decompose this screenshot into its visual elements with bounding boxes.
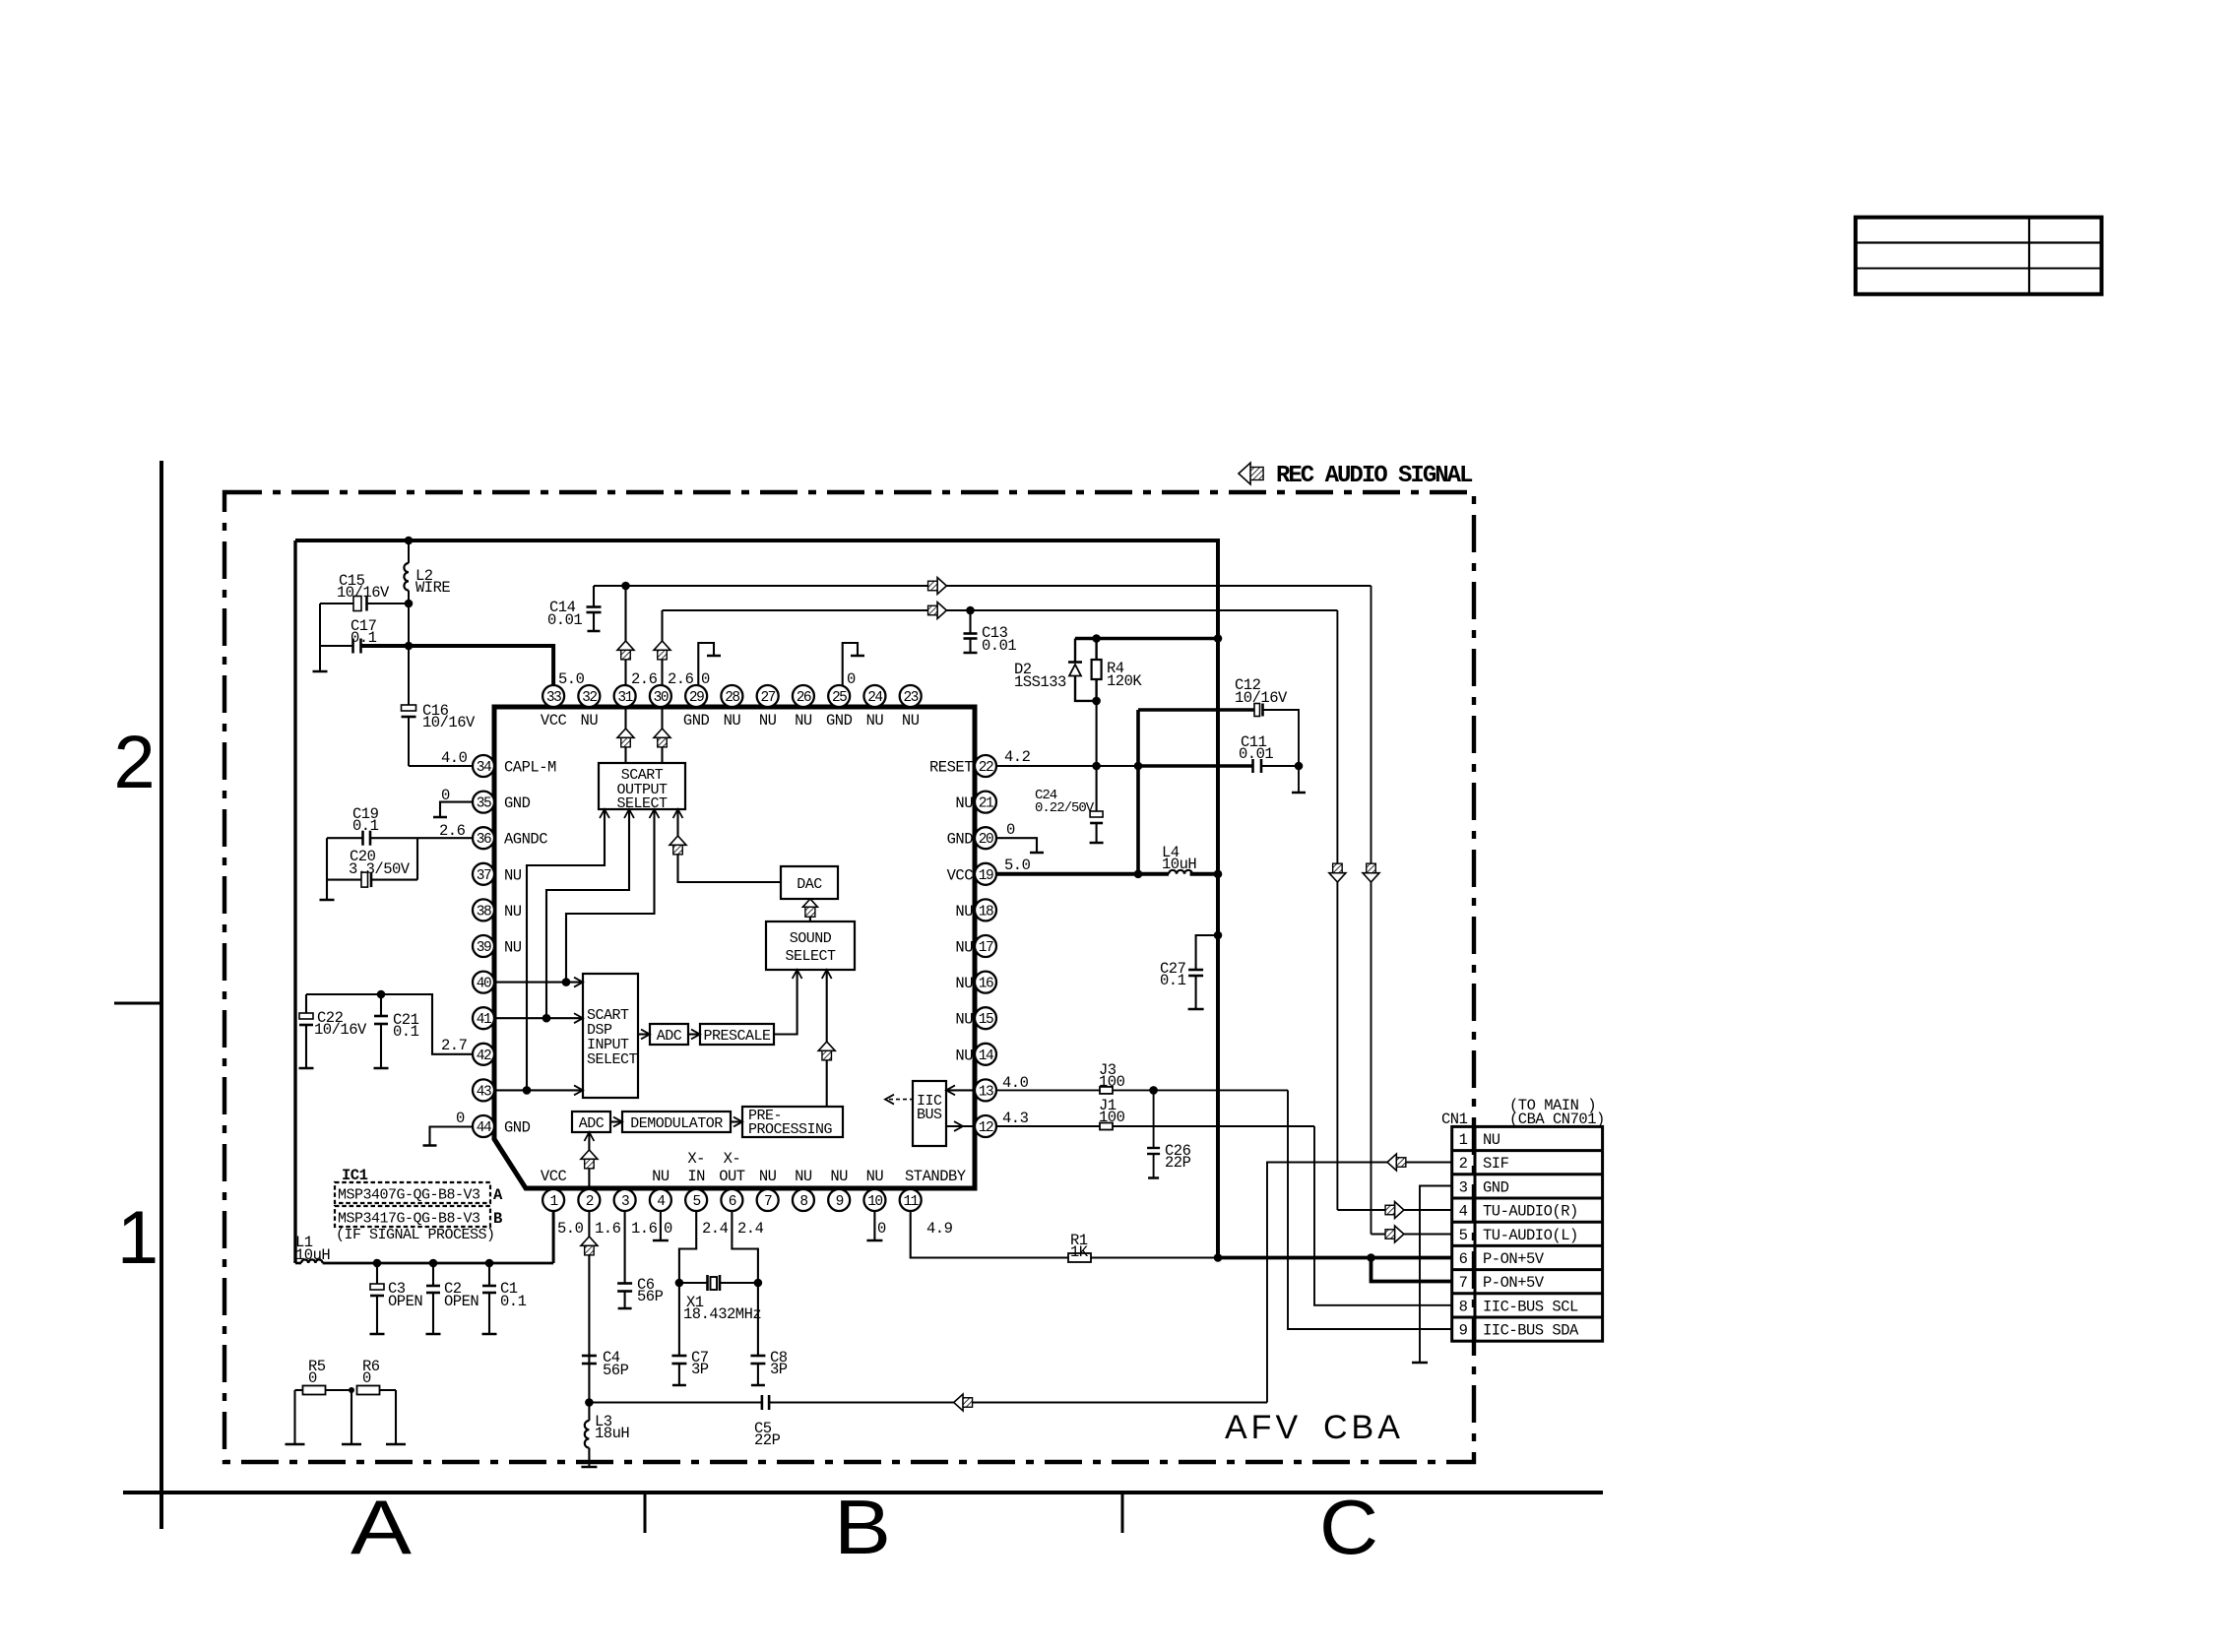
svg-text:2.6: 2.6 — [668, 670, 694, 688]
svg-text:10: 10 — [867, 1194, 882, 1210]
svg-text:22: 22 — [979, 760, 993, 776]
svg-text:36: 36 — [477, 832, 491, 848]
wire pin22 RESET — [996, 765, 1138, 767]
svg-text:SELECT: SELECT — [616, 795, 668, 812]
pin 38 — [473, 899, 494, 921]
pin 26 — [793, 685, 814, 707]
svg-text:WIRE: WIRE — [415, 579, 450, 597]
svg-text:27: 27 — [760, 690, 775, 706]
ground at pin10 — [873, 1211, 875, 1240]
svg-text:1.6: 1.6 — [595, 1220, 621, 1238]
svg-text:0: 0 — [1006, 821, 1015, 839]
svg-text:37: 37 — [477, 868, 491, 884]
wire DSP to ADC — [638, 1033, 650, 1035]
svg-text:GND: GND — [1483, 1178, 1509, 1196]
svg-text:VCC: VCC — [541, 712, 567, 730]
wire pin42 node — [306, 994, 473, 1054]
svg-text:NU: NU — [1483, 1131, 1500, 1149]
svg-text:2.6: 2.6 — [631, 670, 658, 688]
svg-text:4.9: 4.9 — [926, 1220, 953, 1238]
svg-text:0: 0 — [308, 1369, 317, 1387]
svg-text:32: 32 — [582, 690, 597, 706]
pin 39 — [473, 935, 494, 957]
pin 35 — [473, 792, 494, 813]
svg-text:0: 0 — [877, 1220, 886, 1238]
svg-text:1SS133: 1SS133 — [1014, 673, 1066, 691]
wire scart-out input C from pin40 net — [566, 809, 655, 983]
capacitor C15 10/16V — [367, 603, 410, 604]
pin 14 — [975, 1044, 996, 1065]
pin 1 — [542, 1189, 564, 1211]
capacitor C27 0.1 — [1196, 935, 1218, 970]
hidden-net arrow pin30 above — [654, 641, 670, 650]
wire reset filter to C11/C12 — [1138, 764, 1253, 768]
pin 4 — [650, 1189, 671, 1211]
svg-text:NU: NU — [955, 939, 973, 957]
svg-text:GND: GND — [504, 1119, 531, 1137]
revision table — [1856, 218, 2102, 294]
svg-text:NU: NU — [955, 794, 973, 812]
svg-text:3.3/50V: 3.3/50V — [349, 860, 411, 878]
ground at C11/C12 — [1298, 766, 1300, 793]
svg-text:SIF: SIF — [1483, 1155, 1509, 1173]
svg-text:16: 16 — [979, 977, 993, 992]
pin 19 — [975, 863, 996, 885]
pin 25 — [828, 685, 850, 707]
svg-text:X-: X- — [687, 1150, 705, 1168]
svg-text:2: 2 — [113, 721, 155, 804]
capacitor C20 3.3/50V — [416, 838, 418, 879]
crystal X1 18.432MHz — [679, 1282, 708, 1284]
svg-text:34: 34 — [477, 760, 491, 776]
svg-text:8: 8 — [1459, 1298, 1468, 1315]
voltage at pin20 — [996, 838, 1037, 853]
svg-text:OPEN: OPEN — [388, 1293, 422, 1310]
hidden-net arrow pin31 inside — [617, 729, 634, 737]
svg-text:2: 2 — [586, 1194, 594, 1210]
svg-text:25: 25 — [832, 690, 847, 706]
wire to pin34 CAPL-M — [409, 765, 473, 767]
pin 37 — [473, 863, 494, 885]
svg-text:GND: GND — [683, 712, 710, 730]
wire L4 to +5V vertical — [1190, 872, 1218, 876]
svg-text:4: 4 — [657, 1194, 665, 1210]
svg-text:0.01: 0.01 — [982, 637, 1016, 655]
svg-text:0: 0 — [847, 670, 856, 688]
AFV CBA board outline (dash-dot) — [224, 492, 1474, 1462]
svg-text:56P: 56P — [603, 1362, 629, 1379]
inductor L1 10uH — [301, 1259, 323, 1263]
svg-text:NU: NU — [955, 1011, 973, 1029]
block ADC upper — [650, 1024, 688, 1045]
wire scart-out input B from pin41 net — [546, 809, 629, 1018]
capacitor C16 10/16V — [408, 646, 410, 705]
svg-text:SOUND: SOUND — [790, 930, 832, 947]
svg-text:9: 9 — [836, 1194, 844, 1210]
pin 28 — [721, 685, 742, 707]
svg-text:20: 20 — [979, 832, 993, 848]
wire SOUND SELECT to DAC — [809, 899, 811, 921]
svg-text:13: 13 — [979, 1084, 993, 1100]
ground at pin35 — [440, 802, 473, 817]
svg-text:0.1: 0.1 — [352, 817, 379, 835]
svg-text:10/16V: 10/16V — [337, 584, 390, 602]
capacitor C4 56P — [582, 1355, 597, 1358]
pin 18 — [975, 899, 996, 921]
svg-text:26: 26 — [797, 690, 811, 706]
svg-text:GND: GND — [826, 712, 853, 730]
wire D2/R4 top rail — [1075, 637, 1218, 641]
pin 29 — [685, 685, 707, 707]
svg-text:IIC-BUS SDA: IIC-BUS SDA — [1483, 1322, 1579, 1340]
svg-text:ADC: ADC — [579, 1115, 605, 1132]
svg-text:NU: NU — [830, 1168, 848, 1185]
ground at pin25 — [843, 643, 858, 685]
svg-text:1: 1 — [117, 1196, 159, 1280]
svg-text:VCC: VCC — [947, 866, 974, 884]
pin 12 — [975, 1115, 996, 1137]
pin 31 — [614, 685, 636, 707]
svg-text:2: 2 — [1459, 1155, 1468, 1173]
svg-text:22P: 22P — [1165, 1154, 1191, 1172]
svg-text:29: 29 — [689, 690, 704, 706]
wire pin19 VCC to L4 — [996, 872, 1169, 876]
off-page flag REC AUDIO SIGNAL — [1239, 463, 1250, 484]
wire GND from CN1 pin3 — [1420, 1186, 1452, 1364]
pin 20 — [975, 827, 996, 849]
svg-text:3P: 3P — [770, 1361, 788, 1378]
svg-text:IIC-BUS SCL: IIC-BUS SCL — [1483, 1298, 1578, 1315]
svg-text:P-ON+5V: P-ON+5V — [1483, 1274, 1545, 1292]
block DEMODULATOR — [622, 1112, 731, 1132]
svg-text:0: 0 — [701, 670, 710, 688]
svg-text:14: 14 — [979, 1048, 993, 1064]
svg-text:0.22/50V: 0.22/50V — [1035, 800, 1095, 816]
svg-text:9: 9 — [1459, 1322, 1468, 1340]
svg-text:5.0: 5.0 — [1004, 857, 1031, 874]
ground at pin29 — [698, 643, 714, 685]
svg-text:NU: NU — [955, 975, 973, 992]
svg-text:120K: 120K — [1107, 672, 1142, 690]
svg-text:15: 15 — [979, 1012, 993, 1028]
svg-text:2.7: 2.7 — [441, 1037, 468, 1054]
wire ADC lower to DEMODULATOR — [610, 1120, 622, 1122]
pin 7 — [757, 1189, 779, 1211]
pin 5 — [685, 1189, 707, 1211]
block DAC — [781, 866, 838, 899]
svg-text:7: 7 — [1459, 1274, 1468, 1292]
svg-text:IN: IN — [687, 1168, 705, 1185]
wire pin6 X-OUT — [732, 1211, 758, 1356]
wire pin13 SCL — [996, 1089, 1100, 1091]
wire P-ON+5V branch to CN1 pin7 — [1372, 1258, 1452, 1282]
pin 44 — [473, 1115, 494, 1137]
hidden-net arrow pin31 above — [617, 641, 634, 650]
svg-text:22P: 22P — [754, 1431, 781, 1449]
svg-text:DEMODULATOR: DEMODULATOR — [630, 1115, 723, 1132]
pin 22 — [975, 755, 996, 777]
svg-text:3: 3 — [1459, 1178, 1468, 1196]
svg-text:21: 21 — [979, 796, 993, 812]
capacitor C26 22P — [1153, 1090, 1155, 1148]
svg-text:7: 7 — [764, 1194, 772, 1210]
svg-text:0: 0 — [441, 787, 450, 804]
wire PRESCALE to SOUND SELECT — [774, 970, 797, 1035]
svg-text:2.6: 2.6 — [439, 822, 466, 840]
svg-text:0: 0 — [362, 1369, 371, 1387]
wire pin3 to C6 — [624, 1211, 626, 1284]
svg-text:(IF SIGNAL PROCESS): (IF SIGNAL PROCESS) — [336, 1227, 495, 1243]
svg-text:NU: NU — [581, 712, 599, 730]
resistor R5 0 — [295, 1389, 304, 1391]
pin 32 — [578, 685, 600, 707]
svg-text:28: 28 — [725, 690, 739, 706]
block IIC BUS — [913, 1081, 946, 1146]
svg-text:PROCESSING: PROCESSING — [748, 1121, 833, 1138]
svg-text:100: 100 — [1099, 1109, 1125, 1126]
wire DEMODULATOR to PRE-PROCESSING — [731, 1120, 742, 1122]
svg-text:11: 11 — [903, 1194, 918, 1210]
svg-text:AGNDC: AGNDC — [504, 831, 547, 849]
svg-text:A: A — [351, 1484, 412, 1570]
svg-text:BUS: BUS — [917, 1107, 942, 1123]
svg-text:6: 6 — [1459, 1250, 1468, 1268]
svg-text:4.0: 4.0 — [441, 749, 468, 767]
pin 8 — [793, 1189, 814, 1211]
ground at pin44 — [430, 1127, 474, 1146]
svg-text:12: 12 — [979, 1120, 993, 1136]
inductor L2 — [408, 540, 410, 563]
pin 27 — [757, 685, 779, 707]
svg-text:100: 100 — [1099, 1073, 1125, 1091]
sheet border bottom horizontal — [123, 1491, 1603, 1494]
pin 6 — [721, 1189, 742, 1211]
pin 15 — [975, 1007, 996, 1029]
capacitor C1 0.1 — [488, 1263, 490, 1286]
capacitor C6 56P — [617, 1282, 632, 1285]
svg-text:24: 24 — [867, 690, 882, 706]
wire pin5 X-IN — [679, 1211, 696, 1356]
svg-text:0: 0 — [456, 1110, 465, 1127]
svg-text:B: B — [493, 1210, 502, 1228]
capacitor C17 0.1 — [319, 604, 321, 646]
capacitor C24 0.22/50V — [1090, 811, 1103, 817]
svg-text:SELECT: SELECT — [587, 1051, 638, 1068]
diode D2 1SS133 — [1074, 639, 1076, 663]
svg-text:NU: NU — [866, 712, 884, 730]
block PRE-PROCESSING — [742, 1107, 843, 1137]
svg-text:AFV: AFV — [1225, 1409, 1302, 1446]
svg-text:TU-AUDIO(R): TU-AUDIO(R) — [1483, 1203, 1578, 1221]
svg-text:5.0: 5.0 — [557, 1220, 584, 1238]
svg-text:31: 31 — [617, 690, 632, 706]
svg-text:42: 42 — [477, 1048, 491, 1064]
svg-text:18.432MHz: 18.432MHz — [683, 1305, 761, 1323]
svg-text:0.1: 0.1 — [351, 629, 377, 647]
capacitor C5 22P / SIF coupling line — [589, 1402, 762, 1404]
svg-text:8: 8 — [799, 1194, 807, 1210]
svg-text:1K: 1K — [1070, 1243, 1089, 1261]
svg-text:23: 23 — [903, 690, 918, 706]
wire IIC BUS to pin12 — [946, 1125, 975, 1127]
block ADC lower — [572, 1112, 610, 1132]
svg-text:NU: NU — [504, 866, 522, 884]
ground at pin4 — [660, 1211, 662, 1240]
svg-text:4.2: 4.2 — [1004, 748, 1031, 766]
svg-text:VCC: VCC — [541, 1168, 567, 1185]
svg-text:SELECT: SELECT — [785, 948, 836, 965]
hidden-net arrow DAC input — [802, 899, 817, 907]
pin 42 — [473, 1044, 494, 1065]
wire P-ON+5V run to CN1 pin6 — [1218, 1256, 1452, 1260]
svg-text:5.0: 5.0 — [558, 670, 585, 688]
svg-text:NU: NU — [504, 903, 522, 921]
svg-text:10uH: 10uH — [1162, 856, 1196, 873]
hidden-net arrow below pin2 — [581, 1237, 598, 1245]
resistor R6 0 — [357, 1386, 380, 1395]
capacitor C3 OPEN — [376, 1263, 378, 1284]
pin 34 — [473, 755, 494, 777]
pin 43 — [473, 1079, 494, 1101]
svg-text:NU: NU — [955, 1047, 973, 1064]
svg-text:0: 0 — [664, 1220, 672, 1238]
svg-text:0.1: 0.1 — [1160, 972, 1186, 989]
svg-text:MSP3407G-QG-B8-V3: MSP3407G-QG-B8-V3 — [338, 1187, 480, 1204]
wire PRE-PROCESSING to SOUND SELECT — [826, 970, 828, 1107]
capacitor C21 0.1 — [380, 994, 382, 1016]
svg-text:5: 5 — [1459, 1227, 1468, 1244]
ground at C17/C15 — [319, 646, 321, 671]
svg-text:10/16V: 10/16V — [1235, 689, 1288, 707]
wire pin36 AGNDC — [417, 837, 473, 839]
pin 13 — [975, 1079, 996, 1101]
pin 40 — [473, 972, 494, 993]
pin 11 — [900, 1189, 922, 1211]
column tick A/B — [644, 1493, 647, 1533]
block SOUND SELECT — [766, 921, 855, 970]
wire pin2 crystal into ADC lower — [588, 1132, 590, 1188]
resistor R1 1K — [1068, 1253, 1091, 1262]
svg-text:0.1: 0.1 — [393, 1023, 419, 1041]
svg-text:ADC: ADC — [657, 1028, 682, 1045]
svg-text:CBA: CBA — [1323, 1409, 1404, 1446]
grounds for R5/R6 — [293, 1390, 295, 1444]
svg-text:P-ON+5V: P-ON+5V — [1483, 1250, 1545, 1268]
svg-text:3P: 3P — [691, 1361, 709, 1378]
capacitor C13 0.01 — [969, 610, 971, 634]
svg-text:35: 35 — [477, 796, 491, 812]
capacitor C7 3P — [671, 1355, 686, 1358]
svg-text:39: 39 — [477, 940, 491, 956]
svg-text:DAC: DAC — [797, 876, 822, 893]
capacitor C12 10/16V — [1138, 708, 1254, 712]
svg-text:43: 43 — [477, 1084, 491, 1100]
svg-text:18: 18 — [979, 904, 993, 920]
wire SDA to CN1 pin9... actually J1 to pin8 — [1314, 1126, 1452, 1305]
signal line 1 (to TU-AUDIO L) — [594, 585, 1372, 587]
pin 30 — [650, 685, 671, 707]
svg-text:41: 41 — [477, 1012, 491, 1028]
IC U1 MSP3407G body — [494, 707, 975, 1188]
pin 16 — [975, 972, 996, 993]
pin 41 — [473, 1007, 494, 1029]
svg-text:1: 1 — [549, 1194, 557, 1210]
hidden-net arrow on DAC feed — [670, 836, 686, 845]
wire VCC to pin33 via C17 node — [361, 646, 554, 685]
svg-text:17: 17 — [979, 940, 993, 956]
inductor L3 18uH — [585, 1398, 594, 1407]
svg-text:NU: NU — [504, 939, 522, 957]
svg-text:38: 38 — [477, 904, 491, 920]
svg-text:REC AUDIO SIGNAL: REC AUDIO SIGNAL — [1276, 463, 1473, 489]
capacitor C8 3P — [750, 1355, 765, 1358]
resistor R4 120K — [1095, 639, 1097, 661]
svg-text:10/16V: 10/16V — [422, 714, 476, 731]
hidden-net arrow pin30 inside — [654, 729, 670, 737]
wire pin40 to DSP select — [494, 982, 583, 984]
wire C12/C11 branch vertical — [1136, 710, 1140, 874]
svg-text:NU: NU — [795, 1168, 812, 1185]
svg-text:2.4: 2.4 — [737, 1220, 764, 1238]
wire IIC BUS to pin13 — [946, 1089, 975, 1091]
svg-text:OPEN: OPEN — [444, 1293, 478, 1310]
svg-text:18uH: 18uH — [595, 1425, 629, 1442]
wire scart-out input D to DAC — [678, 809, 782, 882]
hidden-net arrow on sound feed — [818, 1042, 835, 1050]
svg-text:B: B — [834, 1484, 891, 1570]
svg-text:56P: 56P — [637, 1288, 664, 1305]
svg-text:A: A — [493, 1186, 503, 1204]
wire L2/C15 node — [408, 604, 410, 646]
svg-text:30: 30 — [654, 690, 669, 706]
wire ADC to PRESCALE — [688, 1033, 700, 1035]
pin 9 — [828, 1189, 850, 1211]
svg-text:CAPL-M: CAPL-M — [504, 759, 556, 777]
block SCART DSP INPUT SELECT — [583, 974, 638, 1098]
sheet border left vertical — [159, 461, 163, 1529]
svg-text:0.01: 0.01 — [547, 611, 582, 629]
jumper J3 100 — [1100, 1087, 1113, 1094]
svg-text:RESET: RESET — [929, 759, 973, 777]
jumper J1 100 — [1100, 1123, 1113, 1130]
capacitor C11 0.01 — [1251, 759, 1254, 773]
pin 17 — [975, 935, 996, 957]
wire pin30 internal to scart-out — [661, 707, 663, 763]
pin 23 — [900, 685, 922, 707]
svg-text:4: 4 — [1459, 1203, 1468, 1221]
wire scart-out input A from pin43 net — [527, 809, 605, 1090]
svg-text:6: 6 — [729, 1194, 736, 1210]
column tick B/C — [1121, 1493, 1124, 1533]
capacitor C22 10/16V — [305, 994, 307, 1013]
wire pin30 up — [661, 610, 663, 685]
svg-text:5: 5 — [693, 1194, 701, 1210]
svg-text:4.3: 4.3 — [1002, 1110, 1029, 1127]
pin 21 — [975, 792, 996, 813]
svg-text:33: 33 — [546, 690, 561, 706]
svg-text:0.1: 0.1 — [500, 1293, 527, 1310]
ground at C19/C20 — [326, 838, 328, 900]
svg-text:10/16V: 10/16V — [314, 1021, 367, 1039]
svg-text:NU: NU — [866, 1168, 884, 1185]
svg-text:1.6: 1.6 — [631, 1220, 658, 1238]
svg-text:C: C — [1319, 1484, 1378, 1570]
svg-text:0.01: 0.01 — [1239, 745, 1273, 763]
wire pin41 to DSP select — [494, 1017, 583, 1019]
signal line 2 (to TU-AUDIO R) — [663, 609, 1338, 611]
svg-text:NU: NU — [759, 712, 777, 730]
pin 33 — [542, 685, 564, 707]
